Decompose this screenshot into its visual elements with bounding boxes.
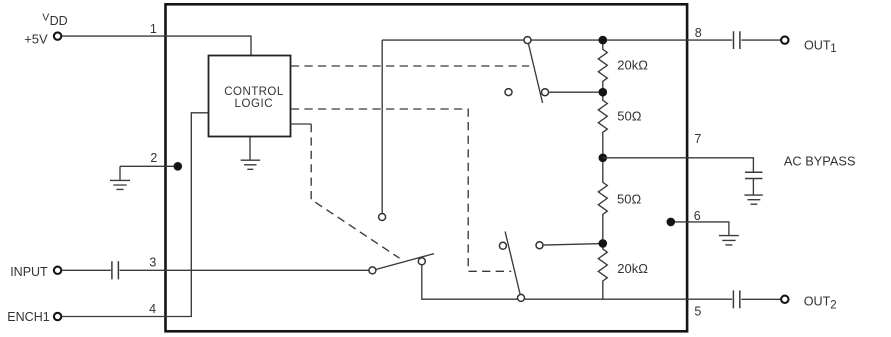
switch S1 throw contact right bbox=[418, 258, 425, 265]
op block CONTROL LOGIC U2 bbox=[209, 56, 291, 137]
node B ladder dot bbox=[599, 88, 608, 97]
ground control logic bbox=[241, 137, 261, 170]
node A ladder top dot bbox=[599, 36, 608, 45]
switch S3 common contact bbox=[524, 37, 531, 44]
svg-text:5: 5 bbox=[694, 305, 701, 319]
dashed control line to switch S2 bbox=[291, 109, 511, 271]
svg-text:7: 7 bbox=[694, 132, 701, 146]
switch S1 throw contact up bbox=[379, 214, 386, 221]
resistor R3 50 bbox=[598, 158, 607, 244]
wire capacitor to OUT2 bbox=[741, 298, 781, 300]
capacitor C4 OUT2 coupling bbox=[733, 290, 739, 308]
IC package outline U1 bbox=[166, 4, 688, 331]
svg-text:LOGIC: LOGIC bbox=[235, 98, 274, 110]
svg-text:1: 1 bbox=[150, 22, 157, 36]
terminal OUT1 bbox=[781, 36, 788, 43]
svg-text:ENCH1: ENCH1 bbox=[7, 310, 49, 324]
switch S2 throw contact right bbox=[536, 242, 543, 249]
capacitor C3 AC bypass bbox=[745, 172, 762, 178]
switch S2 blade bbox=[505, 232, 520, 295]
svg-text:CONTROL: CONTROL bbox=[224, 86, 284, 98]
svg-text:INPUT: INPUT bbox=[10, 265, 48, 279]
node pin6 internal dot bbox=[667, 218, 676, 227]
wire riser switch S1 throw to top rail bbox=[381, 40, 383, 213]
svg-text:20kΩ: 20kΩ bbox=[617, 261, 648, 276]
node C ladder dot bbox=[599, 154, 608, 163]
wire S2 throw to ladder node D bbox=[543, 244, 603, 246]
resistor R4 20k bbox=[598, 243, 607, 299]
capacitor C2 OUT1 coupling bbox=[734, 31, 740, 49]
resistor R2 50 bbox=[598, 92, 607, 158]
terminal VDD bbox=[54, 32, 61, 39]
ground pin2 bbox=[110, 166, 130, 189]
ground pin6 bbox=[719, 236, 739, 245]
svg-text:2: 2 bbox=[150, 151, 157, 165]
wire pin6 to ground bbox=[671, 222, 729, 236]
wire pin1 VDD to control logic bbox=[61, 36, 251, 55]
node D ladder dot bbox=[599, 239, 608, 248]
svg-text:50Ω: 50Ω bbox=[617, 108, 641, 123]
ground AC bypass bbox=[744, 179, 762, 205]
wire pin2 bbox=[120, 165, 176, 167]
switch S3 blade bbox=[528, 44, 542, 104]
svg-text:OUT: OUT bbox=[804, 38, 831, 52]
switch S1 blade bbox=[376, 254, 434, 270]
svg-text:1: 1 bbox=[830, 43, 836, 55]
svg-text:50Ω: 50Ω bbox=[617, 191, 641, 206]
dashed control line to switch S3 bbox=[291, 65, 529, 67]
node pin2 internal dot bbox=[174, 162, 183, 171]
svg-text:OUT: OUT bbox=[804, 295, 831, 309]
wire pin3 capacitor to switch S1 bbox=[120, 269, 369, 271]
wire capacitor to OUT1 bbox=[741, 39, 781, 41]
wire top rail pin 8 bbox=[382, 39, 732, 41]
svg-text:8: 8 bbox=[695, 26, 702, 40]
svg-text:4: 4 bbox=[149, 302, 156, 316]
terminal INPUT bbox=[54, 267, 61, 274]
svg-text:6: 6 bbox=[694, 209, 701, 223]
wire S3 throw to ladder node B bbox=[549, 91, 603, 93]
svg-text:+5V: +5V bbox=[24, 32, 48, 47]
wire pin4 ENCH1 to control logic bbox=[61, 113, 208, 317]
switch S3 throw contact right bbox=[542, 89, 549, 96]
dashed control line to switch S1 bbox=[291, 123, 311, 125]
terminal OUT2 bbox=[781, 296, 788, 303]
svg-text:3: 3 bbox=[149, 255, 156, 269]
wire pin7 to bypass capacitor bbox=[603, 158, 754, 172]
resistor R1 20k bbox=[598, 40, 607, 92]
svg-text:20kΩ: 20kΩ bbox=[617, 58, 648, 73]
wire bottom rail pin 5 bbox=[422, 265, 732, 299]
switch S2 throw contact left bbox=[499, 242, 506, 249]
svg-text:2: 2 bbox=[830, 299, 836, 311]
svg-text:AC BYPASS: AC BYPASS bbox=[784, 154, 856, 169]
switch S2 common contact bbox=[518, 294, 525, 301]
terminal ENCH1 bbox=[54, 313, 61, 320]
capacitor C1 input coupling bbox=[112, 261, 119, 279]
switch S3 throw contact left bbox=[505, 89, 512, 96]
svg-text:V: V bbox=[42, 12, 49, 24]
svg-text:DD: DD bbox=[50, 14, 68, 28]
switch S1 common contact bbox=[369, 267, 376, 274]
wire INPUT to capacitor bbox=[61, 269, 111, 271]
